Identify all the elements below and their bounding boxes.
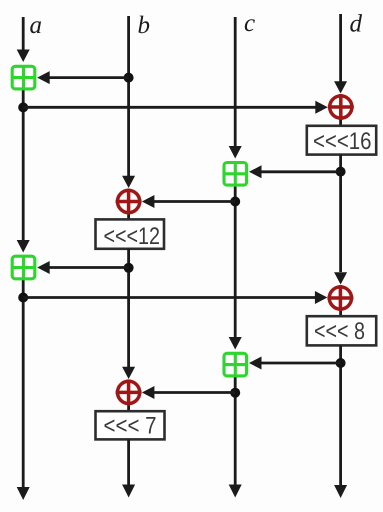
adder A2 bbox=[12, 256, 35, 279]
arrow into X1 right bbox=[142, 195, 155, 208]
arrow d into xor X3 bbox=[334, 81, 347, 93]
svg-text:<<<12: <<<12 bbox=[104, 223, 161, 250]
rotate box 12 bbox=[96, 219, 165, 249]
arrow d output bbox=[334, 485, 347, 498]
svg-text:b: b bbox=[138, 12, 151, 39]
rotate box 16 bbox=[307, 126, 376, 155]
wire a top bbox=[22, 17, 25, 51]
arrow b into xor X1 bbox=[122, 176, 135, 188]
junction c node1 bbox=[230, 197, 240, 207]
junction a node2 bbox=[18, 293, 28, 303]
wire b node2 to adder A2 bbox=[50, 266, 129, 269]
wire a bottom bbox=[22, 280, 25, 488]
arrow a output bbox=[17, 487, 30, 500]
wire a node2 to xor X4 bbox=[23, 296, 315, 299]
adder A4 bbox=[224, 353, 247, 376]
svg-text:c: c bbox=[244, 10, 255, 37]
wire d mid bbox=[339, 155, 342, 272]
wire d bottom bbox=[339, 345, 342, 485]
xor X4 bbox=[327, 285, 353, 311]
arrow c into add A3 bbox=[229, 146, 242, 159]
wire b node1 to adder A1 bbox=[50, 76, 129, 79]
xor X1 bbox=[116, 189, 142, 215]
wire b xor1 to rot12 bbox=[127, 215, 130, 221]
rotate box 7 bbox=[96, 411, 165, 439]
wire c bottom bbox=[234, 377, 237, 485]
arrow b output bbox=[122, 485, 135, 498]
arrow d into xor X4 bbox=[334, 272, 347, 284]
wire a node1 to xor X3 bbox=[23, 106, 315, 109]
wire d node2 to adder A4 bbox=[261, 362, 341, 365]
wire d xor1 to rot16 bbox=[339, 120, 342, 126]
adder A3 bbox=[224, 163, 247, 186]
svg-text:<<<16: <<<16 bbox=[313, 128, 372, 155]
arrow into A1 right bbox=[37, 71, 50, 84]
wire b mid bbox=[127, 249, 130, 368]
svg-text:<<< 7: <<< 7 bbox=[104, 413, 157, 440]
arrow b into xor X2 bbox=[122, 367, 135, 379]
wire d top bbox=[339, 14, 342, 82]
junction b node1 bbox=[124, 73, 134, 83]
wire b xor2 to rot7 bbox=[127, 405, 130, 412]
wire b bottom bbox=[127, 439, 130, 485]
arrow into A4 right bbox=[249, 357, 262, 370]
arrow into X2 right bbox=[142, 386, 155, 399]
wire c node2 to xor X2 bbox=[154, 391, 235, 394]
arrow into A3 right bbox=[249, 165, 262, 178]
junction d node1 bbox=[336, 167, 346, 177]
arrow into X3 left bbox=[315, 101, 328, 114]
wire c mid bbox=[234, 187, 237, 338]
arrow into X4 left bbox=[315, 291, 328, 304]
svg-text:a: a bbox=[30, 12, 43, 39]
arrow c into add A4 bbox=[229, 337, 242, 350]
junction b node2 bbox=[124, 263, 134, 273]
svg-text:<<< 8: <<< 8 bbox=[314, 318, 365, 345]
wire c node1 to xor X1 bbox=[154, 200, 235, 203]
arrow a into add A2 bbox=[17, 240, 30, 253]
rotate box 8 bbox=[307, 316, 376, 345]
arrow c output bbox=[229, 485, 242, 498]
xor X3 bbox=[328, 94, 354, 120]
wire d xor2 to rot8 bbox=[339, 311, 342, 317]
junction d node2 bbox=[336, 358, 346, 368]
svg-text:d: d bbox=[350, 11, 363, 38]
wire c top bbox=[234, 17, 237, 147]
wire a mid1 bbox=[22, 90, 25, 241]
arrow into A2 right bbox=[37, 261, 50, 274]
junction a node1 bbox=[18, 102, 28, 112]
arrow a into add A1 bbox=[17, 50, 30, 63]
adder A1 bbox=[12, 66, 35, 89]
wire d node1 to adder A3 bbox=[261, 170, 341, 173]
xor X2 bbox=[116, 379, 142, 405]
wire b top bbox=[127, 16, 130, 177]
junction c node2 bbox=[230, 388, 240, 398]
